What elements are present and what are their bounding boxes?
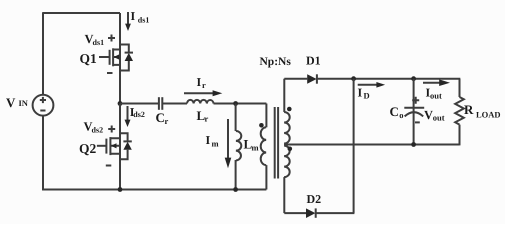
transformer secondary lower winding [284,146,290,214]
current arrow I_ds2 [125,106,131,127]
svg-text:Q2: Q2 [79,141,97,156]
svg-text:Q1: Q1 [80,51,98,66]
label R_LOAD [464,102,501,119]
body diode of Q2 [120,133,132,159]
wire secondary to D2 [284,212,306,214]
svg-text:r: r [202,80,206,90]
svg-text:o: o [399,110,403,120]
wire riser D2 output [353,79,355,213]
node rectifier output [351,76,356,81]
current arrow I_ds1 [125,12,131,31]
svg-text:D2: D2 [307,192,322,206]
polarity minus C_o [415,121,420,123]
label I_ds1 [131,9,150,24]
svg-text:ds1: ds1 [93,38,105,47]
wire drain Q1 [119,13,121,104]
label I_out [426,86,442,101]
polarity plus C_o [412,97,419,104]
svg-text:I: I [197,75,202,89]
capacitor C_o [404,79,424,145]
svg-text:LOAD: LOAD [476,109,501,119]
wire C_r to L_r [162,103,187,105]
wire left vertical lower [42,116,44,191]
wire top rail [43,12,120,14]
transistor Q1 [99,48,120,66]
wire bottom rail [42,189,266,191]
diode D1 [307,74,317,84]
polarity minus Q2 [106,165,112,167]
label I_m [206,133,219,148]
inductor L_r [187,100,214,104]
node L_m top [233,101,238,106]
wire branch L_m [235,104,237,132]
svg-text:out: out [430,91,442,101]
node midpoint [118,101,123,106]
inductor L_m [236,131,241,161]
svg-text:r: r [165,116,169,126]
transistor Q2 [97,137,120,155]
label I_ds2 [130,105,145,119]
current arrow I_m [225,119,232,168]
svg-text:ds2: ds2 [92,126,104,135]
label C_o [390,104,404,120]
wire D1 to output [317,78,460,80]
svg-text:V: V [424,108,433,122]
transformer primary winding [261,104,267,190]
current arrow I_out [423,79,450,86]
source V_IN [33,95,54,116]
polarity dot secondary lower [288,147,293,152]
label V_ds2 [84,119,116,134]
svg-text:r: r [205,114,209,124]
resistor R_LOAD [455,79,464,146]
current arrow I_D [358,82,385,88]
svg-text:D: D [364,90,370,100]
svg-text:C: C [390,104,399,119]
svg-text:V: V [6,95,16,110]
wire L_m to bottom [235,160,237,190]
wire secondary to D1 [284,78,307,80]
svg-text:R: R [464,102,474,117]
svg-text:I: I [131,9,136,23]
label I_D [358,86,370,101]
label I_r [197,75,207,90]
node L_m bottom [233,187,238,192]
label V_ds1 [85,32,116,47]
svg-text:ds2: ds2 [133,110,145,119]
current arrow I_r [184,90,222,96]
wire drain Q2 [119,104,121,190]
node C_o top [411,76,416,81]
wire left vertical upper [42,12,44,95]
svg-text:I: I [358,86,363,100]
svg-text:out: out [433,113,445,123]
node C_o bottom [411,142,416,147]
polarity minus Q1 [107,72,113,74]
svg-text:C: C [156,110,165,125]
label V_IN [6,95,29,110]
capacitor C_r [159,97,162,110]
label V_out [424,108,445,122]
polarity dot primary [259,123,264,128]
svg-text:m: m [212,138,219,148]
polarity dot secondary upper [287,107,292,112]
svg-text:D1: D1 [306,54,321,68]
wire D2 to riser [316,212,355,214]
wire center tap rail [284,144,459,146]
label L_m [244,136,259,152]
svg-text:ds1: ds1 [138,15,150,24]
node Q2 source [118,187,123,192]
svg-text:I: I [206,133,211,147]
transformer secondary upper winding [284,79,290,144]
svg-text:Np:Ns: Np:Ns [260,56,292,68]
svg-text:IN: IN [19,98,29,108]
wire node to C_r [120,103,159,105]
wire L_r to node [214,103,267,105]
diode D2 [306,208,316,218]
svg-text:m: m [252,142,259,152]
label C_r [156,110,169,126]
transformer core [275,107,278,179]
body diode of Q1 [120,45,133,71]
label L_r [197,108,209,124]
